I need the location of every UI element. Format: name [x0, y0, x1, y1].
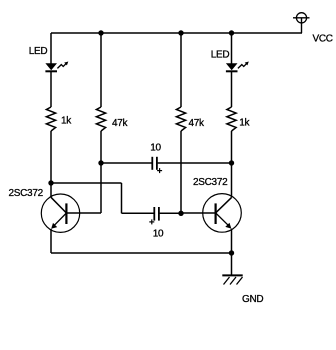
- wire (C2 right plate to Q2 base node): [160, 212, 181, 214]
- power symbol VCC: [293, 13, 310, 33]
- LED left: [45, 62, 68, 72]
- LED right: [226, 62, 249, 72]
- wire (left LED cathode to 1k): [50, 72, 52, 107]
- svg-text:1k: 1k: [239, 118, 250, 129]
- wire (top rail from left branch to VCC): [51, 32, 302, 34]
- resistor 47k (left): [96, 107, 105, 131]
- wire (Q1 collector feedback: right along y=183): [51, 182, 122, 184]
- svg-text:GND: GND: [242, 294, 263, 305]
- svg-text:LED: LED: [29, 46, 48, 57]
- wire (node to Q2 base): [181, 212, 216, 214]
- svg-text:VCC: VCC: [313, 34, 333, 45]
- resistor 1k (right): [227, 107, 236, 131]
- resistor 47k (right): [176, 107, 185, 131]
- wire (Q2 emitter down to ground): [231, 229, 233, 275]
- resistor 1k (left): [46, 107, 55, 131]
- node junction top rail / left 47k: [98, 30, 103, 35]
- node junction top rail / right 47k: [178, 30, 183, 35]
- node Q1 collector junction: [48, 180, 53, 185]
- node junction left 47k / C1: [98, 160, 103, 165]
- node junction top rail / right LED branch: [229, 30, 234, 35]
- node junction ground rail / Q2 emitter: [229, 250, 234, 255]
- node junction right 47k / C2 / Q2 base: [178, 211, 183, 216]
- capacitor C1 10uF (top): [152, 157, 162, 173]
- capacitor C2 10uF (bottom): [149, 207, 159, 224]
- wire (left branch: rail to LED anode): [50, 33, 52, 64]
- svg-text:47k: 47k: [112, 118, 129, 129]
- wire (right branch: rail to LED anode): [231, 33, 233, 64]
- svg-text:2SC372: 2SC372: [9, 188, 44, 199]
- wire (collector lead into Q1): [50, 183, 52, 197]
- wire (C1 right plate to Q2 collector): [158, 162, 232, 164]
- transistor Q2 2SC372 (right, NPN): [203, 194, 242, 233]
- svg-text:1k: 1k: [61, 115, 72, 126]
- ground symbol: [222, 275, 242, 284]
- wire (ground rail): [51, 252, 232, 254]
- node junction C1 / Q2 collector: [229, 160, 234, 165]
- wire (right 47k bottom to Q2 base node): [180, 131, 182, 213]
- wire (feedback step down): [121, 183, 123, 213]
- wire (left 47k bottom to Q1 base corner): [100, 131, 102, 213]
- svg-text:2SC372: 2SC372: [193, 177, 228, 188]
- wire (right LED cathode to 1k): [231, 72, 233, 107]
- wire (step to C2 left plate): [122, 212, 154, 214]
- svg-text:47k: 47k: [189, 118, 206, 129]
- wire (Q1 base to 47k node): [66, 212, 101, 214]
- wire (Q1 emitter down): [50, 229, 52, 253]
- wire (left 1k to collector node): [50, 131, 52, 183]
- wire (left 47k top lead): [100, 33, 102, 107]
- wire (right 1k to Q2 collector): [231, 131, 233, 197]
- svg-text:LED: LED: [211, 50, 230, 61]
- svg-text:10: 10: [150, 142, 161, 153]
- wire (right 47k top lead): [180, 33, 182, 107]
- svg-text:10: 10: [153, 229, 164, 240]
- transistor Q1 2SC372 (left, NPN): [41, 194, 79, 232]
- wire (node to C1 left plate): [101, 162, 152, 164]
